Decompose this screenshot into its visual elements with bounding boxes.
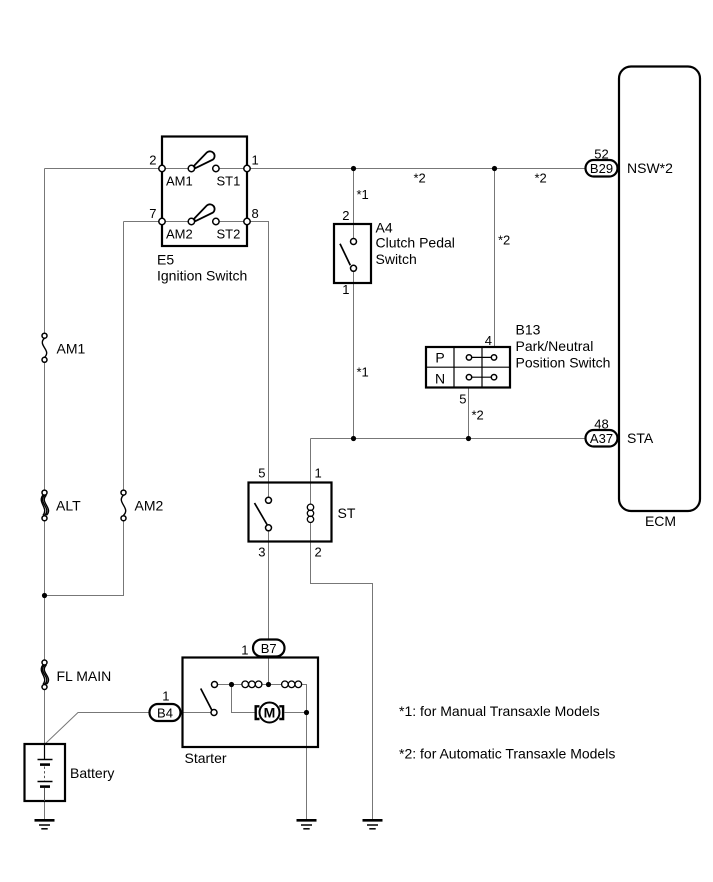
pin 1 terminal — [244, 165, 250, 171]
contact AM2 — [188, 218, 194, 224]
wire: starter internal top row — [215, 685, 307, 713]
starter box — [183, 658, 319, 748]
clutch switch contact bottom — [351, 265, 357, 271]
pin 7 terminal — [159, 218, 165, 224]
ST switch contact top — [266, 497, 272, 503]
svg-text:ECM: ECM — [645, 513, 676, 529]
svg-text:Position Switch: Position Switch — [516, 355, 611, 371]
wire: top NSW bus from left column to B29 — [45, 168, 586, 170]
svg-text:ST: ST — [338, 505, 356, 521]
svg-text:A4: A4 — [376, 220, 393, 236]
clutch switch lever — [340, 244, 350, 266]
motor M left bracket — [256, 706, 260, 719]
svg-text:B29: B29 — [590, 161, 613, 176]
wire: AM2 branch from ignition pin 7 — [124, 222, 192, 493]
svg-text:*2: *2 — [535, 171, 547, 186]
svg-text:1: 1 — [252, 153, 259, 168]
node: NSW bus / clutch branch junction — [351, 166, 356, 171]
svg-text:5: 5 — [459, 392, 466, 407]
svg-text:STA: STA — [627, 430, 654, 446]
svg-text:NSW*2: NSW*2 — [627, 160, 673, 176]
svg-text:N: N — [435, 371, 445, 387]
starter switch contact bottom — [211, 710, 217, 716]
node: starter top row B7 junction — [266, 682, 271, 687]
svg-text:Battery: Battery — [70, 765, 114, 781]
relay ST box — [249, 483, 332, 542]
svg-text:Clutch Pedal: Clutch Pedal — [376, 235, 455, 251]
svg-text:ST2: ST2 — [217, 227, 241, 242]
node: STA bus / B13 pin 5 junction — [466, 436, 471, 441]
wire: starter motor right leg — [285, 712, 307, 714]
starter coil 2 (hold-in) — [282, 681, 302, 688]
svg-text:Ignition Switch: Ignition Switch — [157, 268, 247, 284]
ST switch lever — [255, 503, 268, 525]
ECM U-box — [619, 67, 700, 512]
svg-text:5: 5 — [258, 466, 265, 481]
svg-text:AM1: AM1 — [166, 174, 193, 189]
svg-text:*2: *2 — [498, 233, 510, 248]
pin 8 terminal — [244, 218, 250, 224]
svg-text:1: 1 — [241, 643, 248, 658]
starter coil 1 (pull-in) — [242, 681, 262, 688]
svg-text:FL MAIN: FL MAIN — [57, 668, 112, 684]
ST relay coil — [307, 504, 313, 522]
wire: ST relay pin 2 to ground column — [311, 523, 373, 820]
ignition switch E5 box — [162, 137, 247, 247]
ignition lever row 1 — [194, 151, 215, 168]
svg-text:*2: *2 — [414, 171, 426, 186]
svg-text:8: 8 — [252, 206, 259, 221]
wire: battery to B4 — [45, 713, 150, 745]
svg-text:52: 52 — [594, 147, 608, 162]
svg-text:AM1: AM1 — [57, 341, 86, 357]
wire: starter B4 stub to contact — [181, 712, 211, 714]
svg-text:ST1: ST1 — [217, 174, 241, 189]
svg-text:1: 1 — [162, 689, 169, 704]
battery box — [25, 744, 66, 801]
svg-text:2: 2 — [315, 545, 322, 560]
svg-text:2: 2 — [342, 208, 349, 223]
svg-text:B13: B13 — [516, 322, 541, 338]
B13 internal grid — [426, 347, 510, 388]
fusible link FL MAIN — [42, 660, 47, 665]
wire: B13 pin 5 to STA bus — [468, 388, 470, 439]
node: starter motor right junction — [304, 710, 309, 715]
motor M circle — [260, 703, 280, 723]
connector B29 — [586, 160, 618, 177]
svg-text:1: 1 — [315, 466, 322, 481]
wire: starter ground drop — [306, 713, 308, 820]
B13 row P contacts — [469, 356, 494, 358]
wire: clutch switch column upper — [353, 169, 355, 242]
svg-text:*1: *1 — [357, 365, 369, 380]
wire: starter motor left leg — [232, 685, 255, 713]
svg-text:*1: *1 — [357, 187, 369, 202]
svg-text:AM2: AM2 — [166, 227, 193, 242]
node: AM2 link / main column junction — [42, 593, 47, 598]
B13 row N contacts — [469, 376, 494, 378]
svg-text:B7: B7 — [261, 641, 277, 656]
wire: battery ground drop — [44, 801, 46, 820]
svg-text:4: 4 — [485, 333, 492, 348]
svg-text:*2: *2 — [472, 408, 484, 423]
contact ST2 — [213, 218, 219, 224]
wire: clutch switch column lower — [353, 268, 355, 438]
svg-text:Starter: Starter — [185, 750, 227, 766]
svg-text:1: 1 — [342, 282, 349, 297]
svg-text:48: 48 — [594, 417, 608, 432]
starter switch lever — [201, 689, 212, 711]
wire: ST relay pin 3 to B7 and starter — [268, 531, 270, 685]
svg-text:P: P — [435, 350, 444, 366]
wire: ST relay pin 1 riser — [310, 439, 312, 505]
wire: STA bus — [311, 438, 586, 440]
clutch switch contact top — [351, 239, 357, 245]
wire: AM2 branch lower link to main column — [45, 518, 124, 595]
wire: ignition pin 8 to ST relay pin 5 — [216, 222, 269, 498]
svg-text:M: M — [264, 705, 276, 721]
battery internals — [44, 744, 46, 760]
connector B7 — [253, 640, 285, 657]
clutch pedal switch A4 box — [334, 224, 371, 283]
ST switch contact bottom — [266, 525, 272, 531]
fusible link ALT — [42, 490, 47, 495]
svg-text:7: 7 — [149, 206, 156, 221]
svg-text:2: 2 — [149, 153, 156, 168]
svg-text:ALT: ALT — [56, 498, 81, 514]
ground (starter) — [297, 820, 317, 829]
node: starter top row left junction — [229, 682, 234, 687]
svg-text:AM2: AM2 — [135, 498, 164, 514]
svg-text:E5: E5 — [157, 252, 174, 268]
fuse AM2 — [121, 490, 126, 495]
wire: left main column (battery feed) — [44, 169, 46, 745]
ground (ST relay) — [363, 820, 383, 829]
svg-text:Switch: Switch — [376, 251, 417, 267]
connector A37 — [586, 430, 618, 447]
park/neutral position switch B13 box — [426, 347, 510, 388]
node: STA bus / clutch branch junction — [351, 436, 356, 441]
ignition lever row 2 — [194, 204, 215, 221]
starter switch contact top — [212, 682, 218, 688]
connector B4 — [150, 704, 181, 721]
svg-text:*1: for Manual Transaxle Model: *1: for Manual Transaxle Models — [399, 703, 600, 719]
wire: B13 pin 4 feed — [494, 169, 496, 348]
contact ST1 — [213, 165, 219, 171]
contact AM1 — [188, 165, 194, 171]
fuse AM1 — [42, 333, 47, 338]
svg-text:A37: A37 — [590, 431, 613, 446]
motor M right bracket — [279, 706, 283, 719]
svg-text:3: 3 — [258, 545, 265, 560]
svg-text:B4: B4 — [157, 706, 173, 721]
svg-text:*2: for Automatic Transaxle Mo: *2: for Automatic Transaxle Models — [399, 746, 615, 762]
ground (battery) — [35, 820, 55, 829]
node: NSW bus / B13 feed junction — [492, 166, 497, 171]
pin 2 terminal — [159, 165, 165, 171]
svg-text:Park/Neutral: Park/Neutral — [516, 338, 594, 354]
